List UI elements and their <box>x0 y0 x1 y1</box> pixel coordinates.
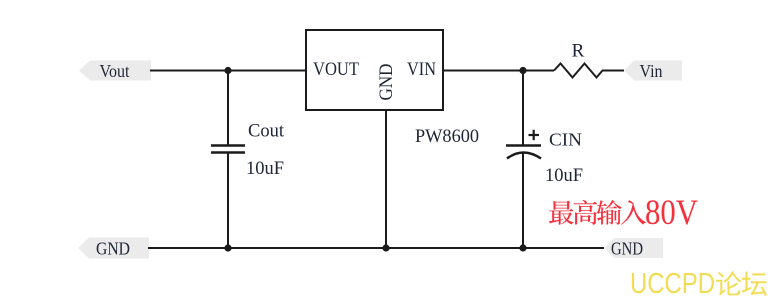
IC U1 PW8600 body <box>306 30 443 110</box>
svg-text:VOUT: VOUT <box>313 59 359 80</box>
watermark UCCPD论坛 <box>630 268 767 296</box>
wire Vout to node A <box>150 70 229 72</box>
svg-text:R: R <box>572 41 585 62</box>
wire CIN bottom to GND bus <box>522 152 524 248</box>
wire GND bus left segment <box>148 247 229 249</box>
wire node A to U1 VOUT pin <box>227 70 306 72</box>
net flag Vin <box>624 61 682 82</box>
svg-text:VIN: VIN <box>407 59 436 80</box>
svg-text:10uF: 10uF <box>246 158 284 179</box>
wire node B to CIN top <box>522 71 524 146</box>
polarity + mark (CIN) <box>529 130 540 140</box>
wire GND bus middle segment <box>227 247 387 249</box>
svg-text:10uF: 10uF <box>545 165 583 186</box>
annotation red 最高输入80V <box>549 192 698 232</box>
junction GND bus at U1 GND <box>382 244 389 251</box>
svg-text:CIN: CIN <box>549 130 582 150</box>
junction GND bus at Cout <box>224 244 231 251</box>
svg-text:PW8600: PW8600 <box>415 126 479 147</box>
junction node A <box>224 67 231 74</box>
wire U1 GND pin to GND bus <box>385 110 387 248</box>
ground net flag GND right <box>604 238 663 259</box>
wire Cout bottom to GND bus <box>227 154 229 249</box>
ground net flag GND left <box>78 238 149 259</box>
wire GND bus to right GND flag <box>522 247 604 249</box>
svg-text:80V: 80V <box>645 192 698 232</box>
wire node B to resistor R <box>523 70 554 72</box>
wire U1 VIN pin to node B <box>443 70 524 72</box>
svg-text:GND: GND <box>96 239 130 259</box>
wire node A to Cout top <box>227 71 229 146</box>
svg-text:GND: GND <box>376 64 397 101</box>
resistor R <box>554 64 603 78</box>
wire GND bus right segment <box>385 247 524 249</box>
svg-text:Vout: Vout <box>100 61 130 81</box>
svg-text:GND: GND <box>611 239 643 259</box>
capacitor Cout <box>211 146 245 153</box>
wire resistor R to Vin flag <box>602 70 624 72</box>
svg-text:UCCPD: UCCPD <box>630 268 715 296</box>
capacitor CIN (polarized) <box>506 146 541 159</box>
svg-text:Cout: Cout <box>248 121 285 142</box>
net flag Vout <box>79 61 151 82</box>
svg-text:Vin: Vin <box>640 61 663 81</box>
junction GND bus at CIN <box>519 244 526 251</box>
junction node B <box>519 67 526 74</box>
